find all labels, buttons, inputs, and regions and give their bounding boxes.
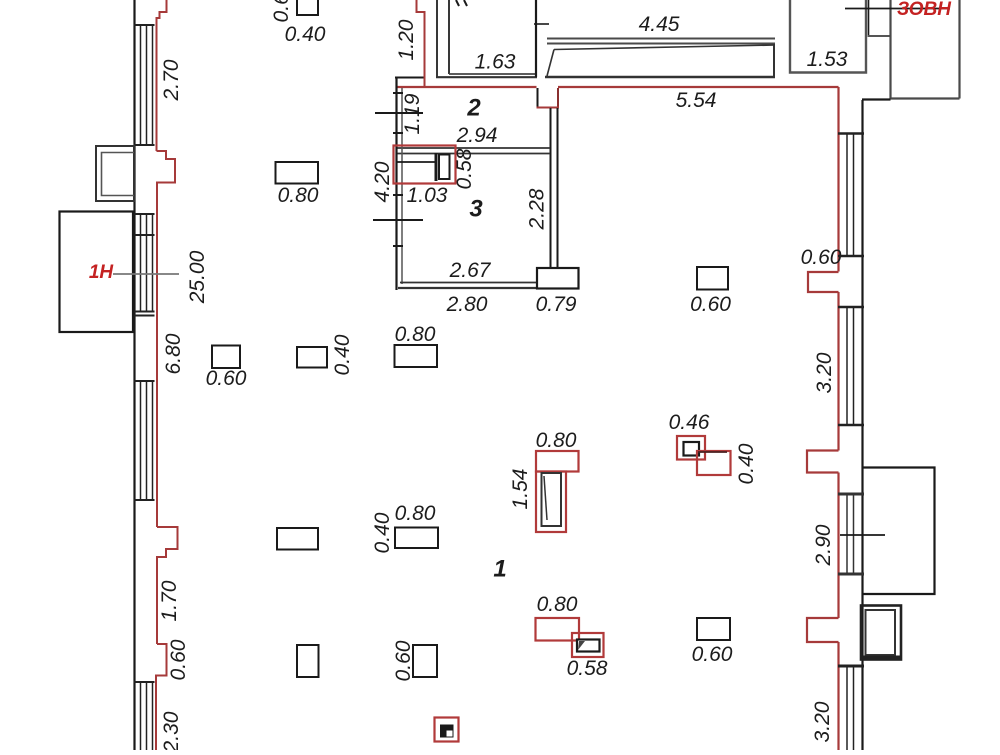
svg-text:1.63: 1.63 xyxy=(475,51,516,74)
short wall line x868 xyxy=(868,0,870,37)
column 0.79 xyxy=(537,268,579,289)
black corner top of room3 wall xyxy=(395,78,424,89)
svg-text:1.03: 1.03 xyxy=(407,184,448,207)
column 0.60 a xyxy=(212,346,240,369)
column 0.60 i xyxy=(697,618,730,640)
svg-text:1Н: 1Н xyxy=(89,262,115,283)
svg-text:1.20: 1.20 xyxy=(395,19,418,60)
svg-text:0.58: 0.58 xyxy=(453,148,476,189)
svg-text:3: 3 xyxy=(469,196,483,223)
right top box xyxy=(891,0,960,99)
door leaf diagonal xyxy=(547,50,554,77)
column 0.60 h xyxy=(413,645,437,677)
red notch 0.60 right xyxy=(808,272,839,292)
wall left red top jog xyxy=(157,0,167,151)
red notch B right xyxy=(807,451,839,473)
box 2.90 right xyxy=(863,468,935,595)
wall bottom room top-middle xyxy=(545,76,775,78)
red element 0.80/0.58 xyxy=(536,618,580,641)
right window R1 xyxy=(838,134,864,257)
svg-text:0.60: 0.60 xyxy=(167,639,190,680)
red wall vertical top 1.20 xyxy=(417,0,425,87)
red element 0.46/0.40 xyxy=(677,436,705,460)
svg-text:0.80: 0.80 xyxy=(395,502,436,525)
door leaf slant xyxy=(554,45,775,50)
RIGHT RED WALL xyxy=(837,87,839,750)
column 0.60 mid xyxy=(697,267,728,290)
svg-text:0.80: 0.80 xyxy=(278,184,319,207)
column 0.80 row2 d xyxy=(276,162,319,184)
svg-text:0.60: 0.60 xyxy=(270,0,293,22)
room top-middle wall band xyxy=(547,38,775,40)
right window R4 xyxy=(838,666,864,750)
svg-text:0.79: 0.79 xyxy=(536,293,577,316)
svg-text:3.20: 3.20 xyxy=(811,701,834,742)
svg-text:1.54: 1.54 xyxy=(509,469,532,510)
svg-text:1.19: 1.19 xyxy=(401,93,424,134)
svg-text:4.45: 4.45 xyxy=(639,13,680,36)
svg-text:0.60: 0.60 xyxy=(392,640,415,681)
svg-text:0.40: 0.40 xyxy=(285,23,326,46)
red shaft 1.03 xyxy=(394,146,456,184)
pointer 2.90 xyxy=(840,534,885,536)
svg-text:0.60: 0.60 xyxy=(690,293,731,316)
svg-text:3.20: 3.20 xyxy=(813,352,836,393)
window W4 left bottom xyxy=(134,682,155,750)
wall right end cap xyxy=(773,44,775,77)
svg-text:0.40: 0.40 xyxy=(331,334,354,375)
svg-text:0.40: 0.40 xyxy=(371,512,394,553)
column 0.80 f xyxy=(395,528,438,549)
right wall outer black line xyxy=(861,100,863,750)
cut text marks top xyxy=(456,0,467,6)
room3 bottom wall xyxy=(400,282,537,284)
svg-text:2.80: 2.80 xyxy=(446,293,488,316)
column 0.40 b xyxy=(297,347,327,368)
svg-text:0.58: 0.58 xyxy=(567,657,608,680)
room 1.63 bottom wall xyxy=(449,73,536,75)
room2 bottom wall double xyxy=(397,147,550,149)
svg-text:0.60: 0.60 xyxy=(801,246,842,269)
svg-text:2: 2 xyxy=(466,95,481,122)
svg-text:5.54: 5.54 xyxy=(676,89,717,112)
window W2 left 25.00 zone xyxy=(134,214,155,316)
wall vertical x536 xyxy=(535,0,537,77)
column g xyxy=(297,645,319,677)
right window R2 3.20 xyxy=(838,307,864,425)
svg-text:4.20: 4.20 xyxy=(371,161,394,202)
svg-text:1.70: 1.70 xyxy=(158,580,181,621)
wall double vertical x437/449 xyxy=(436,0,438,77)
dimension ticks left wall room3 xyxy=(375,112,423,114)
svg-text:6.80: 6.80 xyxy=(162,333,185,374)
RED TOP WALL 5.54 xyxy=(397,86,537,88)
tick y36 xyxy=(868,35,891,37)
svg-text:ЗОВН: ЗОВН xyxy=(897,0,952,20)
thick balcony box right xyxy=(861,606,901,660)
room2 right wall double xyxy=(550,108,552,268)
svg-text:2.28: 2.28 xyxy=(526,188,549,230)
svg-text:0.80: 0.80 xyxy=(536,429,577,452)
big box lower-left 1H block xyxy=(60,212,134,333)
svg-text:1: 1 xyxy=(493,556,506,583)
red niche 1.54/0.80 xyxy=(536,451,579,472)
notch pilaster below red wall xyxy=(537,88,539,108)
balcony box upper left xyxy=(96,146,134,201)
wall left red notch 0.60 xyxy=(156,644,167,750)
svg-text:0.60: 0.60 xyxy=(692,643,733,666)
wall left outer line xyxy=(133,0,135,750)
room3 left wall xyxy=(395,77,397,290)
tick 4.45 dim left xyxy=(534,23,549,25)
column 0.80 c xyxy=(395,345,438,367)
svg-text:0.40: 0.40 xyxy=(735,443,758,484)
room 1.53 box xyxy=(790,0,866,73)
svg-text:0.80: 0.80 xyxy=(395,323,436,346)
svg-text:25.00: 25.00 xyxy=(186,250,209,304)
svg-text:0.80: 0.80 xyxy=(537,593,578,616)
red small box bottom xyxy=(435,718,459,742)
window W3 left xyxy=(134,381,155,500)
pointer line ZOVN xyxy=(845,8,950,10)
svg-text:1.53: 1.53 xyxy=(807,48,848,71)
svg-text:2.94: 2.94 xyxy=(456,124,498,147)
window W1 left 2.70 xyxy=(134,25,155,145)
wall left red notch balcony-door xyxy=(157,151,176,527)
column square top 0.40 xyxy=(297,0,318,15)
right window R3 2.90 xyxy=(838,494,864,574)
svg-text:2.67: 2.67 xyxy=(449,259,492,282)
red notch C right xyxy=(807,618,839,642)
svg-text:2.90: 2.90 xyxy=(812,524,835,566)
wall left red notch 1.70 xyxy=(157,527,178,644)
svg-text:0.60: 0.60 xyxy=(206,367,247,390)
column e xyxy=(277,528,318,550)
svg-text:2.70: 2.70 xyxy=(160,59,183,101)
svg-text:2.30: 2.30 xyxy=(160,711,183,750)
pointer line 1H xyxy=(113,273,179,275)
svg-text:0.46: 0.46 xyxy=(669,411,710,434)
